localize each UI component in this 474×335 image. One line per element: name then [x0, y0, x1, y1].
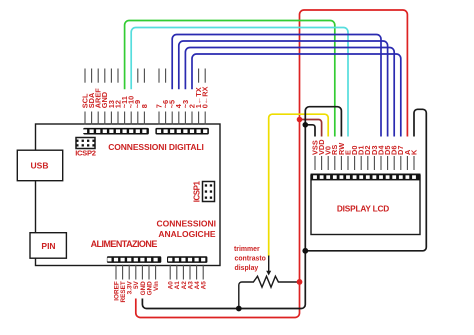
svg-text:trimmer: trimmer — [234, 246, 260, 253]
svg-text:USB: USB — [31, 161, 49, 171]
svg-text:CONNESSIONI DIGITALI: CONNESSIONI DIGITALI — [108, 142, 204, 152]
svg-text:CONNESSIONI: CONNESSIONI — [156, 219, 216, 229]
svg-text:PIN: PIN — [41, 241, 55, 251]
svg-text:Vin: Vin — [153, 281, 160, 291]
svg-text:DISPLAY LCD: DISPLAY LCD — [337, 203, 389, 213]
svg-text:ICSP2: ICSP2 — [75, 148, 96, 157]
svg-text:8: 8 — [140, 104, 149, 108]
svg-text:ANALOGICHE: ANALOGICHE — [158, 229, 215, 239]
svg-text:ALIMENTAZIONE: ALIMENTAZIONE — [91, 239, 158, 249]
svg-text:display: display — [235, 265, 259, 272]
svg-text:A5: A5 — [201, 281, 208, 290]
svg-text:0←RX: 0←RX — [201, 86, 210, 108]
svg-text:ICSP1: ICSP1 — [193, 181, 202, 203]
svg-text:K: K — [409, 149, 418, 155]
svg-text:contrasto: contrasto — [235, 256, 266, 263]
